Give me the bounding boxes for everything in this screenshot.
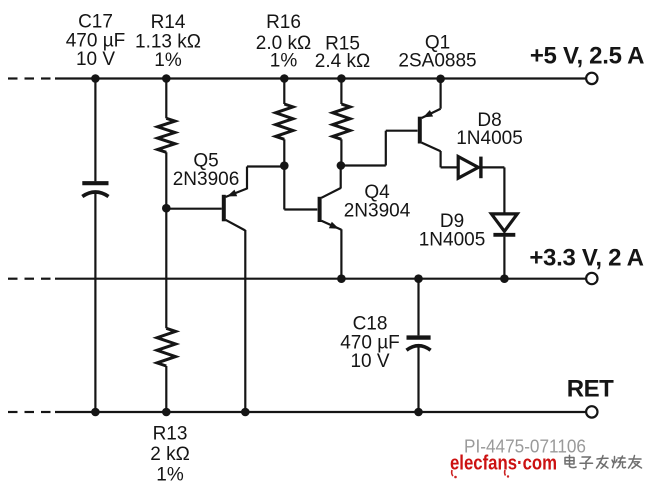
svg-text:1N4005: 1N4005 xyxy=(419,230,486,251)
svg-text:2SA0885: 2SA0885 xyxy=(398,51,476,72)
svg-text:2N3906: 2N3906 xyxy=(173,169,240,190)
svg-text:10 V: 10 V xyxy=(350,351,389,372)
svg-text:1%: 1% xyxy=(154,50,182,71)
svg-text:R14: R14 xyxy=(151,12,186,33)
svg-text:elecfans·com: elecfans·com xyxy=(450,451,557,474)
svg-text:R16: R16 xyxy=(266,12,301,33)
svg-text:2.4 kΩ: 2.4 kΩ xyxy=(315,51,370,72)
svg-text:+3.3 V, 2 A: +3.3 V, 2 A xyxy=(529,245,643,272)
svg-text:R13: R13 xyxy=(153,424,188,445)
svg-text:+5 V, 2.5 A: +5 V, 2.5 A xyxy=(530,43,644,70)
svg-text:1%: 1% xyxy=(156,465,184,482)
svg-text:C17: C17 xyxy=(78,12,113,33)
svg-text:RET: RET xyxy=(567,376,614,403)
svg-text:2N3904: 2N3904 xyxy=(344,201,411,222)
svg-text:1%: 1% xyxy=(270,51,298,72)
svg-text:C18: C18 xyxy=(353,314,388,335)
svg-text:1N4005: 1N4005 xyxy=(456,128,523,149)
svg-text:2 kΩ: 2 kΩ xyxy=(150,444,190,465)
svg-text:10 V: 10 V xyxy=(76,49,115,70)
